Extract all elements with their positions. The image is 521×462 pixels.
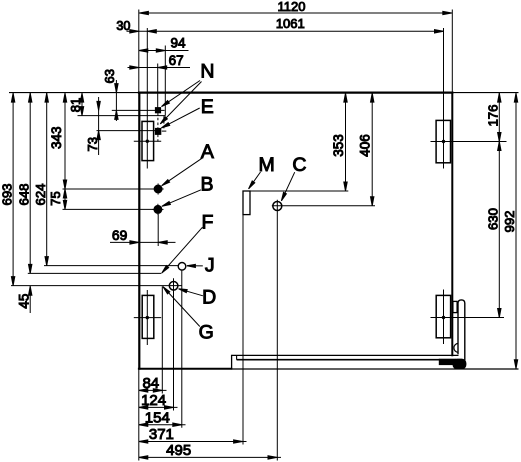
leader M bbox=[249, 172, 261, 189]
label E bbox=[201, 96, 214, 118]
extension line from M down bbox=[242, 215, 244, 445]
leader D bbox=[179, 289, 203, 296]
svg-text:69: 69 bbox=[112, 228, 128, 243]
toe rail top line bbox=[232, 354, 459, 356]
line to hole A bbox=[63, 188, 155, 190]
svg-text:84: 84 bbox=[142, 375, 159, 392]
dimension 630 bbox=[486, 142, 501, 318]
left bottom bracket centerline horizontal bbox=[134, 317, 161, 319]
hinge hook tab bbox=[453, 301, 457, 312]
svg-text:75: 75 bbox=[48, 191, 63, 205]
hidden line below E bbox=[157, 135, 159, 142]
leader F bbox=[162, 227, 203, 273]
right bottom hinge centerline horizontal bbox=[431, 317, 505, 319]
svg-text:371: 371 bbox=[149, 426, 174, 443]
dimension 69 bbox=[110, 228, 176, 244]
leader G bbox=[163, 287, 200, 327]
right bottom hinge bbox=[436, 295, 450, 337]
hinge hook pin housing bbox=[458, 300, 465, 364]
panel bottom edge left part bbox=[138, 368, 232, 370]
svg-text:B: B bbox=[200, 173, 213, 195]
svg-text:154: 154 bbox=[145, 409, 170, 426]
svg-text:J: J bbox=[205, 255, 215, 277]
line to G and D bbox=[11, 285, 182, 287]
svg-text:G: G bbox=[199, 322, 214, 344]
right bottom hinge centerline vertical bbox=[443, 290, 445, 345]
extension line from G down bbox=[161, 286, 163, 393]
svg-text:353: 353 bbox=[331, 134, 346, 157]
mounting square E bbox=[155, 128, 160, 134]
svg-text:176: 176 bbox=[486, 104, 501, 126]
dimension 176 bbox=[486, 93, 501, 142]
panel bottom line right part bbox=[232, 368, 519, 370]
panel top edge extension left bbox=[9, 92, 138, 94]
extension line through C down bbox=[276, 200, 278, 461]
svg-text:992: 992 bbox=[502, 210, 517, 232]
label M bbox=[258, 154, 274, 176]
leader A bbox=[162, 158, 203, 186]
svg-text:73: 73 bbox=[85, 137, 100, 151]
line to hole B bbox=[63, 208, 154, 210]
mounting square N bbox=[155, 108, 160, 113]
dimension 353 bbox=[331, 93, 347, 191]
svg-text:343: 343 bbox=[49, 126, 64, 149]
dimension 693 bbox=[0, 93, 15, 286]
svg-text:D: D bbox=[202, 286, 216, 308]
label C bbox=[292, 154, 306, 176]
svg-text:F: F bbox=[202, 211, 214, 233]
dimension 343 bbox=[49, 93, 67, 189]
svg-text:94: 94 bbox=[170, 36, 186, 51]
svg-text:630: 630 bbox=[486, 208, 501, 230]
label A bbox=[201, 141, 214, 163]
label J bbox=[205, 255, 215, 277]
svg-text:124: 124 bbox=[141, 392, 166, 409]
svg-text:67: 67 bbox=[169, 53, 184, 68]
extension line right edge above bbox=[451, 10, 453, 93]
line to N bbox=[112, 109, 165, 111]
hole C bbox=[273, 202, 282, 211]
hidden line right column bbox=[163, 116, 165, 130]
right top hinge bbox=[436, 120, 450, 162]
svg-text:M: M bbox=[258, 154, 274, 176]
svg-text:45: 45 bbox=[16, 294, 31, 309]
extension line left edge above bbox=[138, 10, 140, 93]
dimension 30 text bbox=[116, 19, 130, 33]
panel left edge bbox=[138, 92, 140, 370]
svg-text:E: E bbox=[201, 96, 214, 118]
dimension 75 bbox=[48, 189, 67, 209]
extension line from J down bbox=[181, 270, 183, 428]
panel right edge bbox=[451, 92, 453, 357]
label G bbox=[199, 322, 214, 344]
extension line from B down bbox=[157, 214, 159, 246]
label D bbox=[202, 286, 216, 308]
svg-text:30: 30 bbox=[116, 19, 130, 33]
dimension 94 bbox=[139, 36, 189, 53]
dimension 67 bbox=[128, 53, 191, 69]
dimension 992 bbox=[502, 93, 518, 369]
dimension 648 bbox=[17, 93, 32, 274]
hole B bbox=[152, 204, 163, 215]
dimension 154 bbox=[139, 409, 186, 426]
extension line 67 target bbox=[157, 64, 159, 108]
panel top edge extension right bbox=[453, 92, 518, 94]
svg-text:406: 406 bbox=[358, 134, 373, 157]
hole A bbox=[153, 183, 164, 194]
dimension 73 bbox=[85, 97, 100, 155]
svg-text:81: 81 bbox=[68, 98, 83, 112]
leader N to square N bbox=[162, 81, 201, 107]
left bottom bracket bbox=[142, 295, 154, 338]
line to F bbox=[28, 272, 162, 274]
left bottom bracket centerline vertical bbox=[146, 290, 148, 345]
leader B bbox=[162, 190, 201, 207]
dimension 1061 bbox=[127, 16, 444, 33]
svg-text:624: 624 bbox=[33, 183, 48, 205]
dimension 45 bbox=[16, 286, 32, 313]
dimension 406 bbox=[358, 93, 374, 206]
line to J bbox=[44, 265, 178, 267]
svg-text:1061: 1061 bbox=[276, 16, 305, 31]
svg-text:N: N bbox=[200, 61, 214, 83]
hole D bbox=[169, 282, 178, 291]
leader E to square E bbox=[161, 108, 199, 128]
extension line left edge below bbox=[138, 370, 140, 461]
extension line 94 target bbox=[164, 46, 166, 116]
leader C bbox=[281, 172, 294, 201]
left top bracket centerline horizontal bbox=[134, 140, 161, 142]
hinge pin crescent bbox=[454, 343, 458, 352]
toe rail step vertical bbox=[231, 355, 233, 370]
hidden dash right of E bbox=[162, 130, 168, 132]
dimension 63 bbox=[102, 69, 118, 121]
label F bbox=[202, 211, 214, 233]
left top bracket center dot bbox=[146, 140, 148, 142]
right top hinge center dot bbox=[442, 140, 444, 142]
left top bracket centerline vertical bbox=[146, 28, 148, 169]
left top bracket bbox=[142, 121, 154, 160]
svg-text:A: A bbox=[201, 141, 214, 163]
label N bbox=[200, 61, 214, 83]
svg-text:648: 648 bbox=[17, 183, 32, 205]
slot M bbox=[243, 191, 250, 215]
dimension 81 bbox=[68, 93, 84, 116]
dimension 371 bbox=[139, 426, 247, 443]
toe rail second line bbox=[237, 359, 440, 361]
dimension 84 bbox=[139, 375, 167, 392]
toe rail jog vertical bbox=[236, 355, 238, 359]
label B bbox=[200, 173, 213, 195]
left bottom bracket center dot bbox=[146, 316, 148, 318]
line through C bbox=[272, 205, 375, 207]
leader N to square E bbox=[160, 82, 201, 124]
leader J bbox=[187, 264, 203, 267]
line from M slot bbox=[250, 190, 348, 192]
extension line through D down bbox=[173, 278, 175, 410]
right bottom hinge center dot bbox=[442, 316, 444, 318]
hole J bbox=[178, 263, 186, 271]
dimension 124 bbox=[139, 392, 178, 409]
hinge hook foot corner bbox=[453, 359, 467, 370]
right top hinge centerline vertical bbox=[443, 28, 445, 169]
svg-text:495: 495 bbox=[166, 442, 191, 459]
dimension 1120 bbox=[139, 0, 453, 15]
hinge hook foot bar bbox=[439, 359, 457, 365]
svg-text:63: 63 bbox=[102, 69, 117, 83]
line to E bbox=[97, 130, 156, 132]
svg-text:1120: 1120 bbox=[278, 0, 306, 14]
dimension 624 bbox=[33, 93, 48, 266]
dimension 495 bbox=[139, 442, 281, 459]
hidden line below N bbox=[157, 113, 159, 128]
panel top edge bbox=[138, 91, 454, 93]
svg-text:693: 693 bbox=[0, 183, 14, 205]
right top hinge centerline horizontal bbox=[431, 141, 507, 143]
line 81 target bbox=[78, 115, 166, 117]
